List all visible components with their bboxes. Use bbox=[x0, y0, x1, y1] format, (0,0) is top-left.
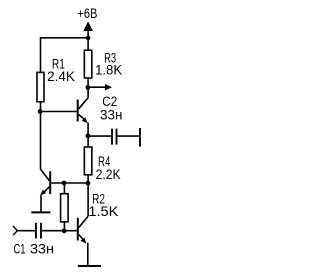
capacitor C2 plates bbox=[112, 129, 117, 145]
node R1 bottom junction dot bbox=[38, 109, 43, 114]
svg-text:1.5K: 1.5K bbox=[88, 204, 119, 220]
capacitor C1 plates bbox=[36, 223, 41, 239]
wire R4 bottom lead to base bus node bbox=[87, 175, 89, 183]
wire R2 bottom lead bbox=[63, 222, 65, 231]
input terminal chevron bbox=[13, 226, 17, 235]
output terminal bar bbox=[139, 128, 141, 147]
svg-text:2.4K: 2.4K bbox=[47, 69, 75, 85]
wire R3 bottom lead to collector node of Q2 bbox=[87, 78, 89, 87]
wire Q3 emitter stem to ground bbox=[87, 243, 89, 267]
resistor R2 bbox=[61, 194, 69, 222]
wire Q2 base from R1 node bbox=[41, 111, 77, 113]
resistor R1 bbox=[37, 72, 44, 101]
wire R2 top lead bbox=[63, 183, 65, 194]
wire R1 bottom lead down to Q1 collector bbox=[40, 102, 42, 169]
power arrow +6B bbox=[83, 22, 93, 32]
svg-text:C1: C1 bbox=[14, 241, 26, 257]
wire Q2 emitter down to R4 top bbox=[87, 123, 89, 147]
wire base bus from Q1 base to rail bbox=[51, 182, 88, 184]
node junction dot top rail bbox=[86, 36, 91, 41]
svg-text:1.8K: 1.8K bbox=[95, 62, 122, 78]
svg-text:33н: 33н bbox=[30, 241, 54, 257]
resistor R3 bbox=[84, 50, 92, 78]
svg-text:2.2K: 2.2K bbox=[96, 167, 121, 183]
wire rail down to Q3 collector bbox=[87, 183, 89, 216]
wire input terminal to C1 bbox=[17, 230, 35, 232]
node C2 tap junction dot bbox=[86, 133, 91, 138]
wire output direction from collector node bbox=[88, 86, 106, 88]
wire capacitor C2 to output terminal bbox=[117, 135, 139, 137]
resistor R4 bbox=[84, 147, 92, 175]
svg-text:33н: 33н bbox=[100, 108, 123, 124]
wire C2 tap to capacitor C2 bbox=[88, 135, 111, 137]
ground Q1 emitter bbox=[31, 211, 50, 213]
transistor Q2 bbox=[78, 87, 88, 123]
node collector Q2 junction dot bbox=[86, 85, 91, 90]
output direction arrow bbox=[105, 84, 112, 91]
transistor Q1 bbox=[40, 169, 50, 196]
wire top rail from R1 column to +6B node bbox=[41, 38, 89, 72]
ground Q3 emitter bbox=[78, 265, 101, 267]
node R2 top junction dot bbox=[62, 181, 67, 186]
power +6B stem bbox=[87, 31, 89, 51]
transistor Q3 bbox=[78, 216, 88, 244]
node R2 bottom junction dot bbox=[62, 228, 67, 233]
node R4 bottom junction dot bbox=[86, 181, 91, 186]
wire C1 to Q3 base bbox=[42, 230, 77, 232]
wire Q1 emitter stem to ground bbox=[40, 196, 42, 213]
svg-text:+6В: +6В bbox=[77, 6, 97, 22]
